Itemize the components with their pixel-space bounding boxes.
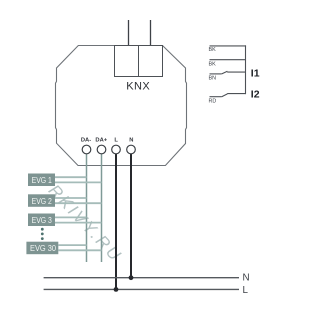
- svg-text:N: N: [243, 272, 250, 283]
- input circuit vertical bus: [245, 45, 247, 94]
- svg-text:RD: RD: [209, 98, 217, 104]
- DA+ bus wire: [101, 154, 103, 262]
- svg-text:EVG 3: EVG 3: [32, 215, 53, 225]
- wire RD with switch S2: [210, 94, 246, 97]
- device body outline U1: [56, 46, 187, 166]
- ballast EVG 2: [28, 194, 55, 207]
- svg-text:BK: BK: [209, 62, 217, 68]
- svg-text:BN: BN: [209, 76, 217, 82]
- ballast EVG 1: [28, 174, 55, 187]
- ballast EVG 30: [26, 242, 58, 255]
- KNX bus wire left: [128, 20, 130, 46]
- L line: [44, 288, 239, 290]
- terminal circle DA+: [97, 145, 106, 154]
- KNX terminal block: [115, 46, 163, 77]
- DA- bus wire: [86, 154, 88, 262]
- ballast EVG 3: [28, 214, 55, 227]
- svg-text:EVG 1: EVG 1: [32, 175, 53, 185]
- terminal circle DA-: [82, 145, 91, 154]
- svg-text:DA+: DA+: [95, 138, 107, 144]
- L wire: [115, 154, 117, 290]
- svg-text:I1: I1: [251, 67, 260, 79]
- terminal circle L: [112, 145, 121, 154]
- wire BK row 2: [210, 59, 246, 61]
- svg-text:I2: I2: [251, 89, 260, 101]
- ellipsis dots: [41, 228, 44, 240]
- svg-text:L: L: [114, 138, 118, 144]
- svg-text:N: N: [129, 138, 133, 144]
- svg-text:KNX: KNX: [126, 81, 150, 93]
- EVG 1 wires: [55, 177, 102, 182]
- EVG 30 wires: [58, 245, 101, 250]
- svg-text:L: L: [243, 285, 249, 296]
- EVG 3 wires: [55, 217, 102, 222]
- KNX bus wire right: [150, 20, 152, 46]
- N line: [44, 277, 239, 279]
- N wire: [130, 154, 132, 278]
- wire BK row 1: [210, 45, 247, 47]
- terminal circle N: [127, 145, 136, 154]
- svg-text:EVG 30: EVG 30: [30, 243, 56, 253]
- EVG 2 wires: [55, 198, 102, 203]
- junction dot N: [129, 275, 134, 280]
- svg-text:EVG 2: EVG 2: [32, 196, 53, 206]
- watermark: [45, 181, 126, 266]
- junction dot L: [114, 287, 119, 292]
- wire BN with switch S1: [210, 71, 246, 74]
- svg-text:BK: BK: [209, 47, 217, 53]
- svg-text:DA-: DA-: [81, 138, 91, 144]
